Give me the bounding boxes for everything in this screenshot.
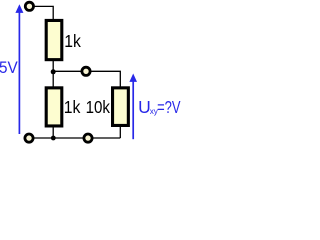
- svg-text:10k: 10k: [86, 97, 111, 118]
- svg-text:=?V: =?V: [157, 98, 181, 117]
- svg-text:1k: 1k: [64, 31, 81, 51]
- svg-text:1k: 1k: [64, 97, 81, 117]
- svg-text:5V: 5V: [0, 58, 18, 77]
